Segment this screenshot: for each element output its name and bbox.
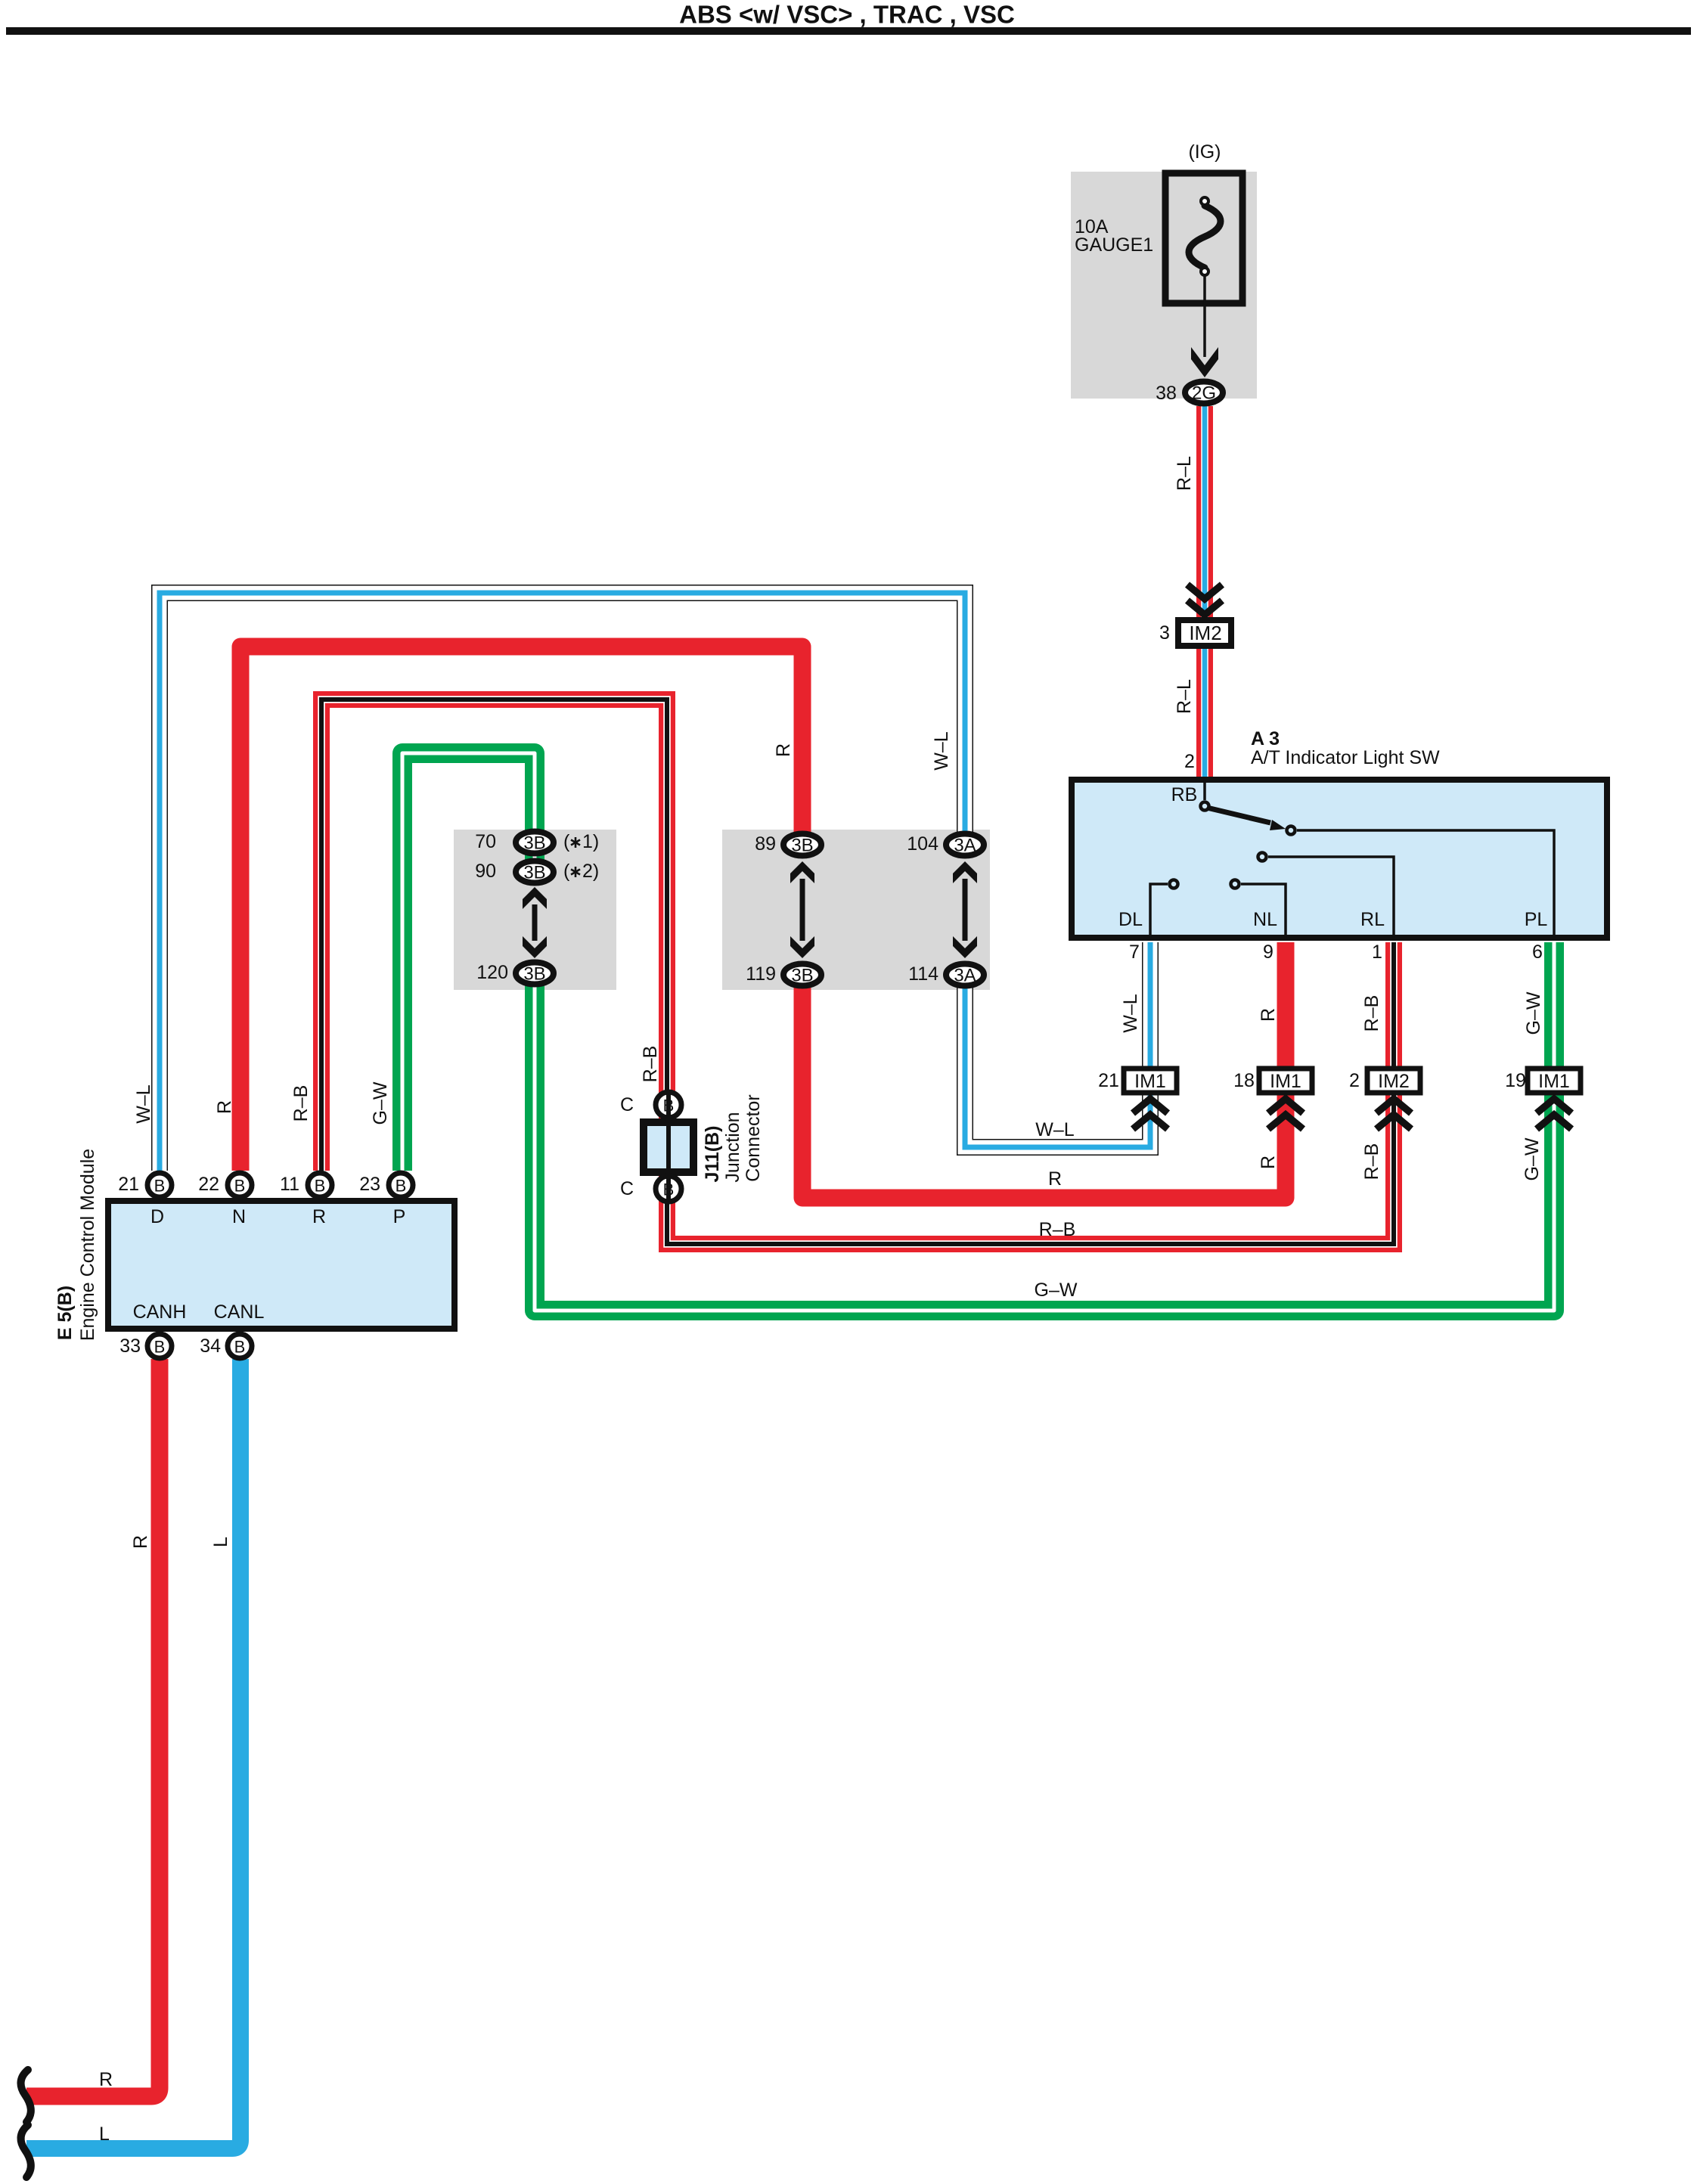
svg-text:R–B: R–B xyxy=(640,1046,661,1083)
svg-text:N: N xyxy=(232,1206,246,1227)
svg-text:3B: 3B xyxy=(523,863,545,883)
svg-text:RL: RL xyxy=(1360,909,1385,930)
svg-text:22: 22 xyxy=(198,1174,219,1195)
svg-text:J11(B): J11(B) xyxy=(702,1125,723,1182)
svg-text:2: 2 xyxy=(1184,751,1195,772)
svg-text:3B: 3B xyxy=(791,966,813,986)
svg-text:(: ( xyxy=(563,861,570,882)
svg-text:104: 104 xyxy=(907,833,938,855)
svg-text:R: R xyxy=(214,1100,235,1114)
svg-text:R–B: R–B xyxy=(1361,995,1382,1032)
svg-text:19: 19 xyxy=(1505,1070,1526,1091)
svg-text:Connector: Connector xyxy=(743,1094,764,1181)
svg-text:1): 1) xyxy=(582,831,599,852)
svg-text:R: R xyxy=(99,2069,113,2090)
svg-text:G–W: G–W xyxy=(1035,1280,1078,1301)
svg-text:B: B xyxy=(663,1180,675,1199)
svg-text:9: 9 xyxy=(1263,942,1274,963)
svg-text:L: L xyxy=(210,1537,231,1547)
svg-text:P: P xyxy=(393,1206,406,1227)
svg-text:IM1: IM1 xyxy=(1134,1071,1166,1092)
svg-text:Engine Control Module: Engine Control Module xyxy=(77,1149,98,1341)
svg-text:CANH: CANH xyxy=(133,1301,187,1323)
svg-text:21: 21 xyxy=(118,1174,139,1195)
svg-text:RB: RB xyxy=(1171,784,1198,805)
svg-text:120: 120 xyxy=(476,962,508,983)
svg-text:B: B xyxy=(396,1177,407,1196)
svg-text:2G: 2G xyxy=(1192,383,1216,404)
svg-text:ABS <w/ VSC> , TRAC , VSC: ABS <w/ VSC> , TRAC , VSC xyxy=(679,1,1015,29)
svg-text:NL: NL xyxy=(1253,909,1277,930)
svg-text:(IG): (IG) xyxy=(1188,141,1221,163)
svg-text:Junction: Junction xyxy=(722,1112,743,1182)
svg-text:G–W: G–W xyxy=(1523,991,1544,1035)
svg-text:2: 2 xyxy=(1349,1070,1360,1091)
svg-text:38: 38 xyxy=(1156,383,1177,404)
svg-text:R: R xyxy=(1258,1008,1279,1022)
svg-text:18: 18 xyxy=(1233,1070,1255,1091)
svg-text:23: 23 xyxy=(359,1174,380,1195)
svg-text:3B: 3B xyxy=(523,964,545,985)
svg-text:119: 119 xyxy=(746,963,776,985)
svg-text:D: D xyxy=(150,1206,164,1227)
svg-text:PL: PL xyxy=(1525,909,1548,930)
svg-text:R: R xyxy=(773,743,794,757)
svg-text:L: L xyxy=(99,2124,110,2145)
svg-text:R–L: R–L xyxy=(1174,679,1195,714)
svg-text:CANL: CANL xyxy=(214,1301,265,1323)
svg-text:1: 1 xyxy=(1372,942,1382,963)
svg-text:C: C xyxy=(620,1178,634,1199)
svg-text:6: 6 xyxy=(1532,942,1543,963)
svg-text:R–B: R–B xyxy=(1039,1219,1076,1240)
svg-text:3B: 3B xyxy=(791,836,813,856)
svg-text:3: 3 xyxy=(1159,622,1170,644)
svg-text:G–W: G–W xyxy=(1522,1137,1543,1180)
svg-text:B: B xyxy=(154,1177,166,1196)
svg-text:3A: 3A xyxy=(954,836,976,856)
svg-text:R: R xyxy=(1258,1156,1279,1169)
svg-text:IM2: IM2 xyxy=(1378,1071,1410,1092)
svg-text:E 5(B): E 5(B) xyxy=(54,1286,76,1340)
svg-text:2): 2) xyxy=(582,861,599,882)
svg-text:R: R xyxy=(1048,1168,1062,1190)
svg-text:IM1: IM1 xyxy=(1270,1071,1301,1092)
svg-text:R–B: R–B xyxy=(1361,1143,1382,1180)
svg-text:W–L: W–L xyxy=(133,1084,154,1124)
svg-text:B: B xyxy=(154,1338,166,1357)
svg-text:IM2: IM2 xyxy=(1189,622,1221,644)
svg-text:89: 89 xyxy=(755,833,776,855)
svg-text:11: 11 xyxy=(280,1174,299,1195)
svg-text:GAUGE1: GAUGE1 xyxy=(1075,234,1153,256)
svg-text:R: R xyxy=(130,1535,151,1549)
svg-text:IM1: IM1 xyxy=(1538,1071,1570,1092)
svg-text:C: C xyxy=(620,1094,634,1115)
svg-text:G–W: G–W xyxy=(370,1081,391,1125)
svg-text:B: B xyxy=(663,1097,675,1115)
svg-text:(: ( xyxy=(563,831,570,852)
svg-text:3A: 3A xyxy=(954,966,976,986)
svg-text:34: 34 xyxy=(200,1336,221,1357)
svg-text:R–B: R–B xyxy=(290,1085,312,1122)
svg-text:W–L: W–L xyxy=(1035,1119,1075,1140)
svg-text:W–L: W–L xyxy=(931,731,952,771)
svg-text:114: 114 xyxy=(908,963,938,985)
svg-text:B: B xyxy=(234,1338,246,1357)
svg-text:7: 7 xyxy=(1129,942,1140,963)
svg-text:3B: 3B xyxy=(523,833,545,854)
svg-text:DL: DL xyxy=(1118,909,1143,930)
svg-text:33: 33 xyxy=(119,1336,141,1357)
svg-text:A/T Indicator Light SW: A/T Indicator Light SW xyxy=(1251,747,1440,768)
svg-text:R: R xyxy=(312,1206,326,1227)
svg-text:B: B xyxy=(234,1177,246,1196)
svg-text:70: 70 xyxy=(475,831,496,852)
svg-text:R–L: R–L xyxy=(1174,456,1195,491)
svg-text:90: 90 xyxy=(475,861,496,882)
svg-text:21: 21 xyxy=(1098,1070,1119,1091)
svg-text:W–L: W–L xyxy=(1120,994,1141,1033)
svg-text:A 3: A 3 xyxy=(1251,728,1280,749)
svg-text:B: B xyxy=(315,1177,326,1196)
